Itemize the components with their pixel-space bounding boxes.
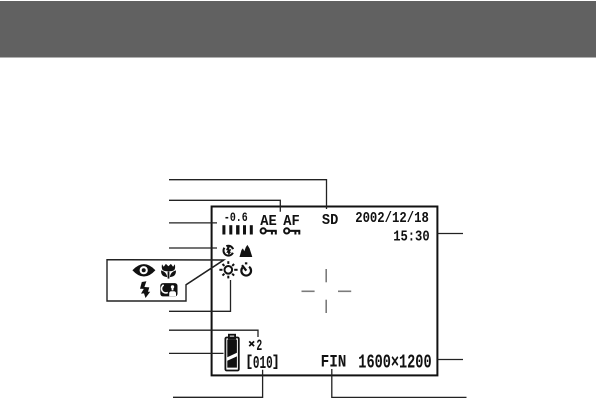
callout line: digital zoom x2 [169,330,258,337]
icon: red-eye reduction (eye) [132,264,155,276]
callout line: exposure compensation [169,222,217,224]
icon: landscape (mountains) [240,245,253,257]
svg-text:15:30: 15:30 [393,230,429,246]
svg-text:SD: SD [322,213,338,229]
LCD monitor frame [212,207,438,376]
callout line: time 15:30 [438,233,464,235]
text: x2 digital zoom [249,341,254,346]
icon: white balance daylight (sun) [219,261,237,278]
exposure meter bars [222,225,252,234]
icon: key under AF (AF lock) [284,228,300,234]
callout line: white balance (sun) [169,280,231,311]
callout balloon box (flash modes) [107,260,224,301]
svg-text:2002/12/18: 2002/12/18 [355,211,429,227]
callout line: SD card indicator [169,180,327,209]
svg-text:-0.6: -0.6 [224,211,248,226]
callout line: resolution 1600x1200 [438,359,464,361]
icon: self-timer (clock) [240,262,251,276]
diagonal pointer from balloon to sun icon [186,260,224,285]
callout line: battery [169,352,224,354]
svg-text:1600×1200: 1600×1200 [358,353,431,375]
AF target crosshair (center) [302,269,352,313]
callout line: flash-off / scene icons [169,247,217,249]
icon: battery (half) [225,335,238,371]
icon: key under AE (AE lock) [261,228,277,234]
svg-text:FIN: FIN [321,352,347,372]
callout line: frame counter [010] [173,370,263,398]
callout line: AF lock [169,200,280,211]
callout line: FIN quality [332,369,467,397]
header bar [0,1,596,58]
icon: macro (tulip flower) [161,264,176,279]
svg-text:010: 010 [253,352,273,374]
text: frame counter [010] [248,355,278,370]
icon: night scene (rounded square, moon + person) [160,283,177,296]
icon: auto flash (circled bolt) [220,242,236,256]
icon: flash (lightning bolt) [140,281,150,298]
